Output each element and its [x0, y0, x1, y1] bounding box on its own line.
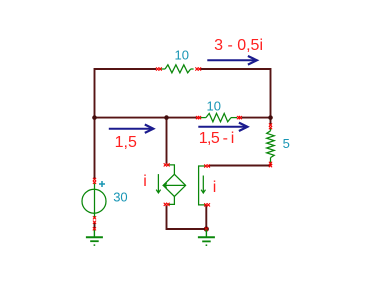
node junction ground — [204, 226, 209, 231]
voltage source plus sign — [99, 181, 105, 187]
svg-text:10: 10 — [207, 99, 221, 114]
wire middle rail right — [242, 117, 271, 119]
resistor R1 — [160, 65, 193, 73]
wire left vertical to source — [94, 118, 96, 180]
ground G1 — [86, 230, 103, 246]
wire top-left loop — [95, 69, 157, 118]
wire mid vertical to diamond — [166, 118, 168, 165]
voltage source V1 — [82, 183, 106, 217]
resistor R3 — [267, 128, 275, 163]
svg-text:10: 10 — [175, 48, 189, 63]
bracket terminals — [204, 164, 210, 230]
current arrow 3 - 0,5i — [207, 56, 257, 65]
wire source to ground — [94, 222, 96, 229]
current arrow 1,5 - i — [198, 123, 247, 131]
wire top-right loop — [200, 69, 270, 125]
dependent source terminals — [164, 163, 170, 206]
node junction B — [164, 115, 169, 120]
wire resistor R3 bottom horizontal — [209, 163, 271, 165]
dependent source D1 diamond — [163, 165, 185, 205]
ground G1 terminal — [93, 227, 96, 230]
resistor R2 — [200, 113, 237, 121]
svg-text:1,5: 1,5 — [115, 134, 137, 151]
current arrow 1,5 — [109, 125, 154, 133]
current arrow left of diamond — [156, 174, 160, 193]
svg-text:1,5 - i: 1,5 - i — [199, 130, 234, 147]
voltage source terminals — [93, 178, 96, 224]
node junction C — [268, 115, 273, 120]
svg-text:30: 30 — [113, 189, 127, 204]
resistor R2 terminals — [196, 116, 242, 119]
svg-text:i: i — [143, 173, 147, 190]
ground G2 — [198, 230, 215, 246]
wire diamond bottom to ground node — [167, 205, 207, 229]
wire bracket bottom to ground node — [205, 205, 207, 229]
svg-text:i: i — [213, 179, 217, 196]
resistor R3 terminals — [269, 123, 272, 167]
wire middle rail left — [95, 117, 197, 119]
wire green bracket (controlling branch) — [199, 166, 206, 205]
current arrow right of diamond — [201, 176, 205, 194]
node junction A — [92, 115, 97, 120]
svg-text:5: 5 — [283, 136, 290, 151]
svg-text:3 - 0,5i: 3 - 0,5i — [214, 37, 263, 54]
resistor R1 terminals — [156, 67, 201, 70]
